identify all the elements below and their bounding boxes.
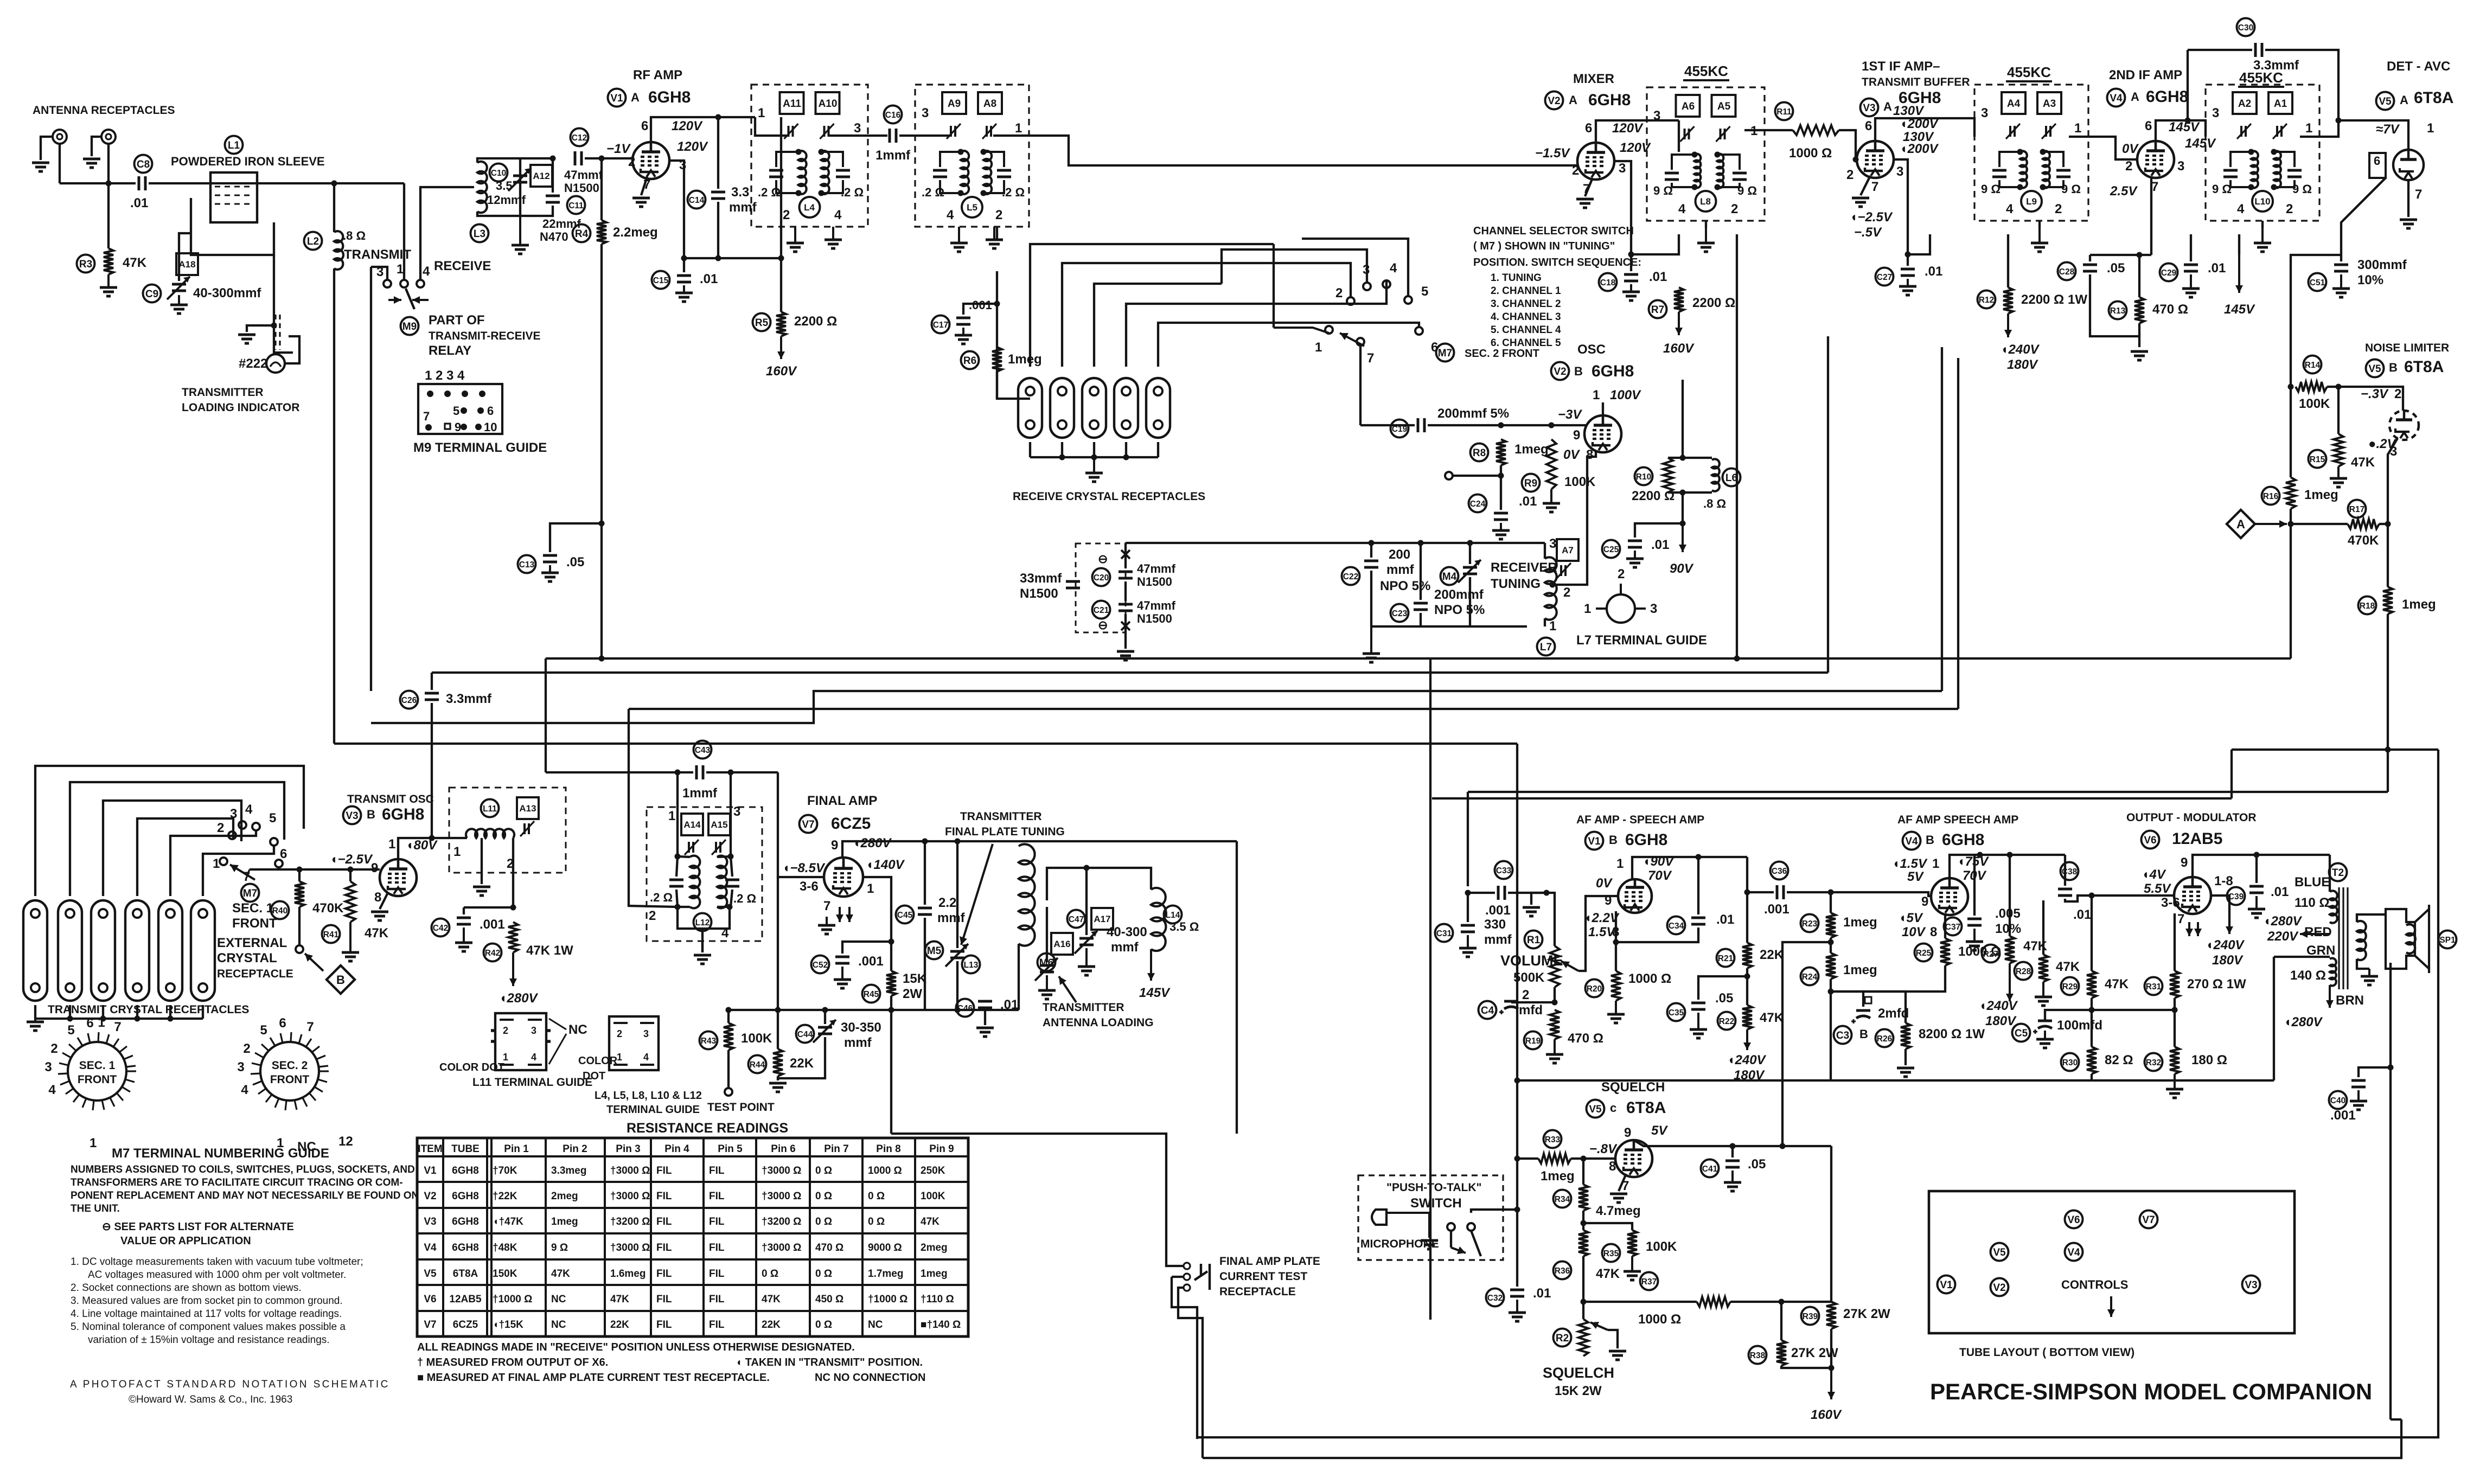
- resistor R20 label: [1586, 980, 1603, 997]
- wire bus A corner down: [545, 658, 547, 772]
- svg-text:12AB5: 12AB5: [449, 1294, 482, 1305]
- svg-text:V2: V2: [1993, 1282, 2005, 1294]
- svg-text:.8 Ω: .8 Ω: [343, 229, 366, 242]
- arrow R12 to 240V: [2004, 314, 2012, 337]
- arrow RED 280V: [2300, 930, 2330, 938]
- wire R18 col: [2387, 524, 2389, 587]
- capacitor C46 .01: [978, 1001, 992, 1008]
- svg-text:SQUELCH: SQUELCH: [1543, 1365, 1614, 1381]
- tube type 6GH8 V3A: [1899, 89, 1941, 107]
- transformer T2 label: [2329, 863, 2347, 881]
- pin 1 relay: [397, 262, 404, 277]
- ground L8: [1697, 228, 1715, 252]
- inductor L7 coil: [1545, 557, 1557, 619]
- wire R31 down: [2174, 998, 2176, 1047]
- arrow V7 heater: [836, 907, 853, 922]
- text receive crystal receptacles: [1013, 490, 1205, 503]
- svg-text:OSC: OSC: [1577, 342, 1606, 357]
- svg-text:L14: L14: [1166, 911, 1180, 920]
- svg-text:2200 Ω: 2200 Ω: [1632, 489, 1675, 503]
- svg-text:TEST POINT: TEST POINT: [707, 1101, 775, 1114]
- tube V3 label b: [343, 807, 361, 824]
- svg-text:BLUE: BLUE: [2295, 875, 2330, 890]
- wire R16 bottom: [2290, 509, 2292, 524]
- tube type 6T8A V5B: [2404, 358, 2444, 376]
- svg-text:POSITION. SWITCH SEQUENCE:: POSITION. SWITCH SEQUENCE:: [1473, 257, 1641, 268]
- resistor R37 1000: [1697, 1297, 1730, 1307]
- wire R27 col: [2009, 855, 2011, 936]
- svg-text:9 Ω: 9 Ω: [1653, 184, 1673, 197]
- svg-text:C21: C21: [1094, 606, 1109, 615]
- pin 8 V2B: [1586, 447, 1593, 462]
- node A junction: [2288, 521, 2294, 527]
- svg-text:C34: C34: [1669, 922, 1684, 931]
- svg-text:†3000 Ω: †3000 Ω: [610, 1242, 650, 1253]
- wire L14 top: [1074, 868, 1151, 890]
- svg-text:R16: R16: [2263, 492, 2279, 501]
- sw2 num 1: [1315, 340, 1322, 355]
- svg-text:2meg: 2meg: [551, 1191, 578, 1202]
- svg-text:4: 4: [2237, 202, 2245, 216]
- M9 guide pin9: [461, 424, 467, 430]
- svg-text:9: 9: [1605, 893, 1612, 908]
- svg-text:FIL: FIL: [709, 1242, 725, 1253]
- ground under C37: [1966, 929, 1983, 950]
- pin2 L12: [649, 909, 656, 923]
- pin 3 L7: [1549, 536, 1556, 551]
- layout V5: [1991, 1243, 2009, 1261]
- resistor R44 label: [749, 1056, 766, 1073]
- node C34 top: [1696, 854, 1702, 860]
- value R18 1meg: [2402, 597, 2436, 612]
- voltage 280V R42: [499, 991, 539, 1006]
- capacitor C16 1mmf: [890, 129, 896, 143]
- tube V3A 6GH8 1st IF amp: [1857, 141, 1894, 178]
- voltage 2.5V V4A: [2110, 184, 2138, 199]
- wire ant load top: [1047, 868, 1074, 900]
- svg-text:.01: .01: [1651, 538, 1669, 552]
- svg-text:CRYSTAL: CRYSTAL: [217, 951, 277, 965]
- svg-text:1: 1: [758, 106, 765, 120]
- wire ptt arm1: [1450, 1231, 1452, 1248]
- tube V5B 6T8A noise limiter: [2389, 411, 2419, 440]
- wire C19 to V2B grid: [1428, 424, 1587, 426]
- ground V2A cathode: [1576, 199, 1594, 208]
- wire bus D right vert: [1957, 358, 1959, 709]
- svg-text:R38: R38: [1750, 1351, 1766, 1360]
- value R45 2W: [903, 987, 922, 1001]
- svg-text:C40: C40: [2330, 1096, 2345, 1105]
- microphone symbol: [1372, 1210, 1429, 1238]
- switch M7 sec1 contact 2: [228, 831, 236, 839]
- crystal X mark bottom: [1121, 622, 1130, 630]
- node plate top C45: [922, 839, 928, 845]
- ground R32: [2166, 1074, 2183, 1098]
- node C33 tee: [1465, 890, 1471, 896]
- resistor R19 label: [1524, 1032, 1542, 1050]
- wire R41 stem: [349, 869, 351, 881]
- svg-text:5: 5: [453, 404, 459, 418]
- svg-text:◖240V: ◖240V: [1727, 1053, 1767, 1067]
- svg-text:4: 4: [423, 264, 430, 279]
- inductor L3 coil: [477, 162, 487, 213]
- inductor L13 label: [962, 956, 980, 974]
- value C11 N470: [540, 230, 568, 244]
- svg-text:A: A: [2400, 93, 2408, 107]
- svg-text:A1: A1: [2274, 98, 2287, 110]
- capacitor C34 .01: [1691, 918, 1705, 924]
- wire C26 down to txosc: [431, 703, 433, 838]
- wire R2 col: [1582, 1285, 1584, 1319]
- svg-text:1: 1: [213, 856, 220, 871]
- node tx bus 314: [168, 1016, 174, 1022]
- svg-text:RESISTANCE READINGS: RESISTANCE READINGS: [627, 1121, 788, 1136]
- resistor R32 180: [2170, 1047, 2180, 1074]
- arrow R2 wiper: [1590, 1322, 1608, 1330]
- svg-text:mmf: mmf: [844, 1035, 872, 1050]
- svg-text:270 Ω 1W: 270 Ω 1W: [2187, 977, 2246, 992]
- wire receive crystal bus: [1030, 456, 1158, 458]
- wire C17 branch: [963, 304, 997, 315]
- ground lamp: [238, 335, 255, 343]
- ground R28: [2035, 982, 2052, 1006]
- ground under C40: [2350, 1090, 2367, 1110]
- svg-text:10: 10: [484, 420, 497, 434]
- svg-text:0 Ω: 0 Ω: [815, 1165, 832, 1176]
- text channel selector line2: [1473, 240, 1615, 252]
- wire L12 pin3 col: [730, 772, 732, 856]
- text receiver tuning 1: [1491, 560, 1557, 575]
- svg-text:9 Ω: 9 Ω: [2292, 182, 2312, 196]
- voltage 200V V3A b: [1900, 142, 1939, 156]
- svg-text:100K: 100K: [1564, 475, 1596, 489]
- resistor R42 label: [484, 944, 502, 962]
- ground C47: [1078, 948, 1095, 975]
- svg-text:12: 12: [338, 1134, 353, 1149]
- voltage 200V V3A: [1900, 117, 1939, 131]
- pin 6 V3A: [1865, 119, 1872, 133]
- svg-text:L13: L13: [964, 961, 979, 970]
- wire osc plate col: [1682, 380, 1684, 458]
- transmit crystal receptacle 2: [58, 900, 82, 1001]
- svg-text:180 Ω: 180 Ω: [2191, 1053, 2227, 1067]
- capacitor C22 label: [1342, 567, 1360, 585]
- resistor R5 label: [753, 314, 771, 331]
- underline 455KC L9: [2006, 80, 2052, 82]
- wire C42 arm: [464, 906, 513, 909]
- wire channel bus 4: [1126, 304, 1302, 367]
- wire L12 bottom join: [678, 907, 730, 952]
- svg-text:110 Ω: 110 Ω: [2295, 895, 2330, 910]
- text part of relay line3: [429, 343, 471, 358]
- layout V3: [2242, 1276, 2260, 1294]
- svg-text:R23: R23: [1802, 919, 1818, 929]
- wire grid gnd arm: [1531, 893, 1546, 905]
- wire R25 down: [1831, 965, 1945, 992]
- wire R29 bottom: [2091, 998, 2093, 1047]
- wire V2A plate up: [1596, 120, 1679, 143]
- switch M7 sec1 arm: [230, 865, 255, 880]
- wire sw2 contact6 up: [1330, 323, 1419, 328]
- wire sw2 contact3 up: [1222, 250, 1367, 284]
- svg-text:33mmf: 33mmf: [1020, 571, 1062, 586]
- svg-text:◖4V: ◖4V: [2142, 867, 2166, 882]
- svg-text:2: 2: [1572, 163, 1579, 178]
- value C9 40-300mmf: [193, 286, 261, 300]
- svg-text:V5: V5: [1589, 1104, 1602, 1115]
- capacitor C36 .001: [1777, 885, 1784, 899]
- wire L3 to junction: [520, 157, 553, 159]
- ground tank: [1363, 626, 1380, 662]
- svg-text:47K: 47K: [1596, 1266, 1620, 1281]
- wire L2 top: [333, 183, 335, 232]
- svg-text:A16: A16: [1053, 939, 1070, 949]
- tube V7 label: [800, 815, 817, 833]
- switch M7 sec1 contact 4: [252, 823, 260, 830]
- capacitor C19 200mmf: [1418, 418, 1424, 432]
- svg-text:30-350: 30-350: [841, 1020, 881, 1035]
- node M5 bus: [955, 1007, 961, 1013]
- value C22 mmf: [1386, 562, 1415, 577]
- transformer L10 IF can 455KC: [2206, 85, 2319, 221]
- wire M4 down: [1469, 577, 1471, 626]
- svg-text:A15: A15: [711, 820, 727, 830]
- capacitor C34 label: [1667, 917, 1685, 935]
- wire L12 capR a: [731, 856, 732, 877]
- text receiver tuning 2: [1491, 577, 1541, 591]
- text V3 B: [367, 808, 375, 821]
- svg-text:4: 4: [1678, 202, 1686, 216]
- wire C43 line b: [706, 771, 778, 773]
- capacitor C35 label: [1667, 1003, 1685, 1021]
- wire V5A pin1 up: [2338, 120, 2408, 150]
- node 160V: [1829, 1365, 1835, 1371]
- value C23 NPO: [1434, 603, 1485, 617]
- tube V3 label: [1861, 99, 1878, 117]
- tube V5C 6T8A squelch: [1615, 1140, 1652, 1177]
- wire bus C right vert: [1941, 347, 1943, 691]
- minus C20 top: [1098, 552, 1108, 566]
- text color dot 2a: [578, 1055, 618, 1067]
- node plate top C14: [715, 114, 721, 120]
- svg-text:47mmf: 47mmf: [564, 168, 603, 182]
- wire V3A screen right: [1894, 159, 1908, 254]
- svg-text:1-8: 1-8: [2214, 874, 2233, 888]
- node C35 tee: [1744, 974, 1750, 980]
- sw2 num 3: [1363, 263, 1370, 277]
- value C33 .001: [1485, 903, 1511, 918]
- wire R16 col: [2290, 387, 2292, 477]
- text color dot L11: [439, 1061, 504, 1073]
- svg-text:EXTERNAL: EXTERNAL: [217, 936, 287, 950]
- capacitor C30 label: [2237, 18, 2255, 36]
- value R13 470: [2152, 302, 2188, 317]
- sw2 num 4: [1390, 261, 1397, 276]
- value C44 30-350: [841, 1020, 881, 1035]
- node L4 pin2 top: [778, 255, 784, 261]
- svg-text:120V: 120V: [677, 139, 708, 154]
- svg-text:−.5V: −.5V: [1854, 225, 1882, 240]
- svg-text:90V: 90V: [1670, 561, 1694, 576]
- pin 2 V2A: [1572, 163, 1579, 178]
- M9 guide numbers top: [425, 368, 465, 383]
- svg-text:A14: A14: [683, 820, 701, 830]
- svg-text:C37: C37: [1945, 923, 1960, 932]
- svg-text:22K: 22K: [790, 1056, 814, 1071]
- svg-text:R7: R7: [1651, 304, 1664, 316]
- node squelch left: [1514, 1156, 1520, 1162]
- tube V3B 6GH8 transmit osc: [380, 859, 417, 896]
- svg-text:1.7meg: 1.7meg: [868, 1268, 903, 1280]
- M9 guide pin6: [477, 407, 484, 414]
- svg-text:C15: C15: [653, 276, 669, 285]
- svg-text:R42: R42: [485, 949, 500, 958]
- wire bus to receptacle a: [890, 1010, 892, 1134]
- ground L5 left: [950, 227, 968, 252]
- svg-text:1: 1: [1616, 856, 1624, 871]
- text channel selector line3: [1473, 257, 1641, 268]
- svg-text:4: 4: [1390, 261, 1397, 276]
- ground L12: [694, 955, 711, 964]
- wire B+ line y1382: [2232, 749, 2438, 751]
- wire R39 bottom: [1830, 1329, 1832, 1368]
- resistor R17 470K: [2348, 519, 2379, 529]
- svg-text:.01: .01: [1519, 494, 1537, 509]
- receive crystal receptacle 1: [1018, 378, 1042, 438]
- svg-text:3: 3: [2177, 159, 2184, 174]
- wire nest down x1159: [629, 709, 678, 907]
- svg-text:2mfd: 2mfd: [1878, 1006, 1909, 1021]
- svg-text:◖240V: ◖240V: [1979, 999, 2018, 1013]
- M9 guide pins row1: [427, 391, 485, 397]
- wire bus E y1371: [334, 743, 1517, 745]
- resistor R34 label: [1554, 1190, 1571, 1208]
- sw2 num 7: [1367, 351, 1374, 366]
- resistor R12 label: [1978, 291, 1996, 309]
- svg-text:0V: 0V: [1563, 447, 1580, 462]
- svg-text:RECEIVE: RECEIVE: [434, 259, 491, 273]
- svg-text:⊖: ⊖: [1098, 618, 1108, 632]
- voltage 280V T2: [2263, 914, 2303, 929]
- svg-text:6GH8: 6GH8: [452, 1191, 479, 1202]
- svg-text:300mmf: 300mmf: [2357, 258, 2407, 272]
- value R38 27K: [1791, 1346, 1838, 1360]
- resistor R8 label: [1471, 444, 1488, 462]
- value C47 mmf: [1111, 940, 1139, 955]
- value R25 1000: [1958, 944, 2001, 959]
- capacitor C9 label: [143, 285, 161, 303]
- node antenna junction: [106, 181, 112, 187]
- svg-text:470 Ω: 470 Ω: [815, 1242, 843, 1253]
- svg-text:9 Ω: 9 Ω: [1981, 182, 2001, 196]
- svg-text:47K: 47K: [921, 1216, 939, 1227]
- svg-text:R8: R8: [1473, 447, 1486, 459]
- svg-text:L6: L6: [1725, 472, 1737, 484]
- wire squelch grid: [1517, 1157, 1538, 1160]
- text color dot 2b: [583, 1070, 605, 1082]
- text squelch heading: [1601, 1080, 1665, 1095]
- capacitor C42 .001: [457, 918, 471, 924]
- resistor R27 47K: [2005, 936, 2015, 963]
- capacitor C33 .001: [1498, 886, 1505, 900]
- voltage 10V V4B: [1902, 925, 1926, 939]
- wafer2 num12: [338, 1134, 353, 1149]
- svg-text:2.5V: 2.5V: [2110, 184, 2138, 199]
- ground under C41: [1724, 1170, 1741, 1191]
- pin 7 V6: [2177, 912, 2184, 926]
- wire L14 right col: [1236, 841, 1238, 1134]
- svg-text:82 Ω: 82 Ω: [2105, 1053, 2133, 1067]
- capacitor C27 label: [1876, 268, 1894, 286]
- capacitor L12 right: [725, 880, 739, 886]
- svg-text:.001: .001: [858, 954, 884, 969]
- wire R34 bottom: [1582, 1211, 1584, 1230]
- resistor R13 470: [2134, 297, 2144, 323]
- wire R36 bottom: [1582, 1256, 1584, 1285]
- svg-text:R13: R13: [2110, 306, 2126, 316]
- wire ptt blade: [1471, 1231, 1481, 1256]
- wire R45 bottom: [890, 996, 892, 1010]
- wire R24 return line: [1782, 942, 1831, 1146]
- wire L13 bottom: [1018, 944, 1020, 1010]
- resistor R14 label: [2304, 356, 2322, 374]
- voltage 70V V4B: [1963, 868, 1987, 883]
- wire det out: [2341, 178, 2386, 255]
- svg-text:R20: R20: [1587, 984, 1602, 994]
- svg-text:.2 Ω: .2 Ω: [650, 891, 673, 904]
- ground V5C: [1610, 1194, 1627, 1202]
- text 15K 2W: [1555, 1384, 1602, 1398]
- value R8 1meg: [1514, 442, 1549, 457]
- capacitor C38 label: [2061, 862, 2079, 880]
- node tank C22: [1369, 540, 1375, 546]
- svg-text:47K: 47K: [365, 926, 389, 941]
- switch M7 sec2 contact 3: [1363, 283, 1371, 290]
- svg-text:FIL: FIL: [709, 1294, 725, 1305]
- text L11 terminal guide: [472, 1076, 592, 1089]
- wire V1B cathode col: [1615, 911, 1617, 971]
- svg-text:2: 2: [628, 155, 635, 169]
- svg-text:V7: V7: [2142, 1214, 2155, 1226]
- svg-text:6: 6: [641, 119, 648, 133]
- node R23 top: [1828, 890, 1834, 895]
- svg-text:9 Ω: 9 Ω: [1737, 184, 1757, 197]
- resistor R4 2.2meg: [597, 220, 606, 244]
- svg-text:L1: L1: [228, 140, 240, 151]
- value R3 47K: [123, 255, 147, 270]
- svg-text:.01: .01: [700, 272, 718, 286]
- note 4: [71, 1308, 342, 1320]
- ground R13: [2131, 351, 2148, 360]
- wire C41 bus: [1634, 1140, 1831, 1146]
- tube type 12AB5: [2172, 830, 2222, 848]
- svg-text:.05: .05: [1748, 1157, 1766, 1172]
- svg-text:6CZ5: 6CZ5: [453, 1319, 478, 1331]
- speaker SP1 voice coil: [2406, 924, 2415, 954]
- wire tank bottom: [1371, 625, 1527, 628]
- value R22 47K: [1760, 1010, 1784, 1025]
- arrow ptt: [1451, 1246, 1466, 1254]
- wire R21 bottom: [1746, 968, 1748, 1005]
- wire R8 bottom: [1500, 465, 1502, 510]
- wire ptt common: [1471, 1210, 1517, 1213]
- svg-text:200mmf 5%: 200mmf 5%: [1437, 406, 1509, 421]
- svg-text:R17: R17: [2349, 505, 2364, 514]
- svg-text:1: 1: [1932, 856, 1939, 871]
- svg-text:C47: C47: [1069, 915, 1084, 924]
- voltage 240V V6: [2206, 938, 2245, 952]
- svg-text:140 Ω: 140 Ω: [2290, 968, 2326, 983]
